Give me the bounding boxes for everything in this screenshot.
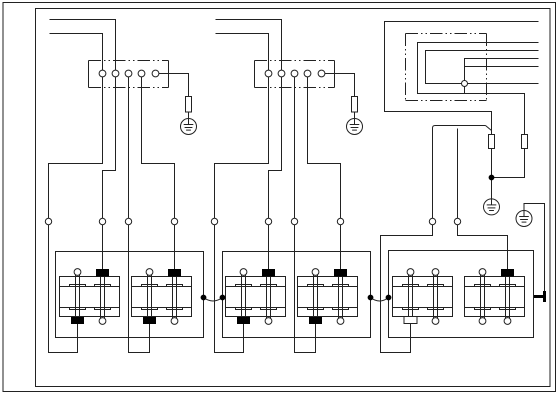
terminal pins of connector X1 xyxy=(99,70,159,77)
ground symbol G1 xyxy=(181,119,197,135)
wire terminal 3 X2 down to coil 3 lower pin xyxy=(295,74,316,353)
resistor R1 xyxy=(186,97,192,113)
ignition coil T1 box xyxy=(60,277,120,317)
inline connector harness 3 left xyxy=(429,218,435,224)
shield boundary box xyxy=(406,34,487,101)
inline connectors of harness 2 xyxy=(211,218,343,224)
ignition coil T5 box xyxy=(393,277,453,317)
wire terminal 3 X1 down to coil 3 lower pin xyxy=(129,74,150,353)
ground symbol G2 xyxy=(347,119,363,135)
spark plug element T3a xyxy=(236,269,252,324)
spark plug element T1a xyxy=(70,269,86,324)
wire resistor R1 to ground xyxy=(188,112,190,119)
ground symbol G3 xyxy=(484,199,500,215)
wire terminal 2 X2 down to coil 2 upper pin xyxy=(269,74,282,273)
ignition coil T6 internal rails xyxy=(465,287,525,308)
spark plug element T3b xyxy=(261,269,277,324)
module wire 2 loop to resistor R4 xyxy=(418,43,539,135)
ignition coil T4 box xyxy=(298,277,358,317)
wire terminal 5 X1 to resistor R1 xyxy=(159,74,189,97)
junction dot group A2 right edge xyxy=(368,295,374,301)
module wire 1 loop to resistor R3 xyxy=(385,22,539,135)
junction dot below R3 xyxy=(489,175,495,181)
module wire 5 to splice xyxy=(465,66,539,68)
junction dot group A3 left edge xyxy=(386,295,392,301)
wire terminal 4 X1 down to coil 4 upper pin xyxy=(142,74,175,273)
wire module to group A3 coil 8 upper pin xyxy=(458,129,508,273)
wire terminal 2 X1 down to coil 2 upper pin xyxy=(103,74,116,273)
ignition coil T2 box xyxy=(132,277,192,317)
spark plug element T2a xyxy=(142,269,158,324)
feed wire to terminal 2 of connector X2 xyxy=(216,20,282,74)
wire resistor R2 to ground xyxy=(354,112,356,119)
resistor R3 xyxy=(489,135,495,149)
module wire 6 from splice xyxy=(467,83,538,85)
resistor R4 xyxy=(522,135,528,149)
chassis tab stub xyxy=(534,295,543,298)
inline connector harness 3 right xyxy=(454,218,460,224)
ignition coil T5 internal rails xyxy=(393,287,453,308)
terminal pins of connector X2 xyxy=(265,70,325,77)
wire junction to resistor R4 xyxy=(492,149,525,178)
ignition coil T4 internal rails xyxy=(298,287,358,308)
chassis tab bar xyxy=(543,291,546,302)
module wire 4 to splice xyxy=(465,59,539,81)
spark plug element T6a xyxy=(475,269,491,325)
junction dot group A2 left edge xyxy=(220,295,226,301)
module wire 3 loop to splice xyxy=(426,51,539,84)
spark plug element T6b xyxy=(500,269,516,324)
spark plug element T4b xyxy=(333,269,349,324)
wire resistor R3 to ground G3 xyxy=(491,149,493,199)
ignition coil T2 internal rails xyxy=(132,287,192,308)
resistor R2 xyxy=(352,97,358,113)
ground symbol G4 xyxy=(516,211,532,227)
ignition coil T3 box xyxy=(226,277,286,317)
wire terminal 1 X1 down to coil 1 lower pin xyxy=(49,74,103,353)
wire module to group A3 coil 5 lower pin xyxy=(381,126,486,353)
wire terminal 5 X2 to resistor R2 xyxy=(325,74,355,97)
ignition coil T3 internal rails xyxy=(226,287,286,308)
inline connectors of harness 1 xyxy=(45,218,177,224)
spark plug element T5a xyxy=(403,269,419,324)
spark plug element T4a xyxy=(308,269,324,324)
connector block X2 outline xyxy=(255,61,335,88)
feed wire to terminal 2 of connector X1 xyxy=(50,20,116,74)
feed wire to terminal 1 of connector X1 xyxy=(50,34,103,74)
spark plug element T2b xyxy=(167,269,183,324)
coil group box A3 xyxy=(389,251,534,338)
splice terminal xyxy=(462,81,468,87)
link wire group A1 to A2 xyxy=(204,298,223,302)
ignition coil T1 internal rails xyxy=(60,287,120,308)
coil group box A2 xyxy=(223,252,371,338)
coil group box A1 xyxy=(56,252,204,338)
feed wire to terminal 1 of connector X2 xyxy=(216,34,269,74)
wire terminal 1 X2 down to coil 1 lower pin xyxy=(215,74,269,353)
link wire group A2 to A3 xyxy=(371,298,389,302)
wire terminal 4 X2 down to coil 4 upper pin xyxy=(308,74,341,273)
spark plug element T1b xyxy=(95,269,111,324)
wire join to resistor R3 leg xyxy=(486,126,492,131)
junction dot group A1 right edge xyxy=(201,295,207,301)
ignition coil T6 box xyxy=(465,277,525,317)
splice drop wire xyxy=(464,86,466,93)
connector block X1 outline xyxy=(89,61,169,88)
wire ground G4 to chassis tab xyxy=(524,204,545,292)
spark plug element T5b xyxy=(428,269,444,325)
